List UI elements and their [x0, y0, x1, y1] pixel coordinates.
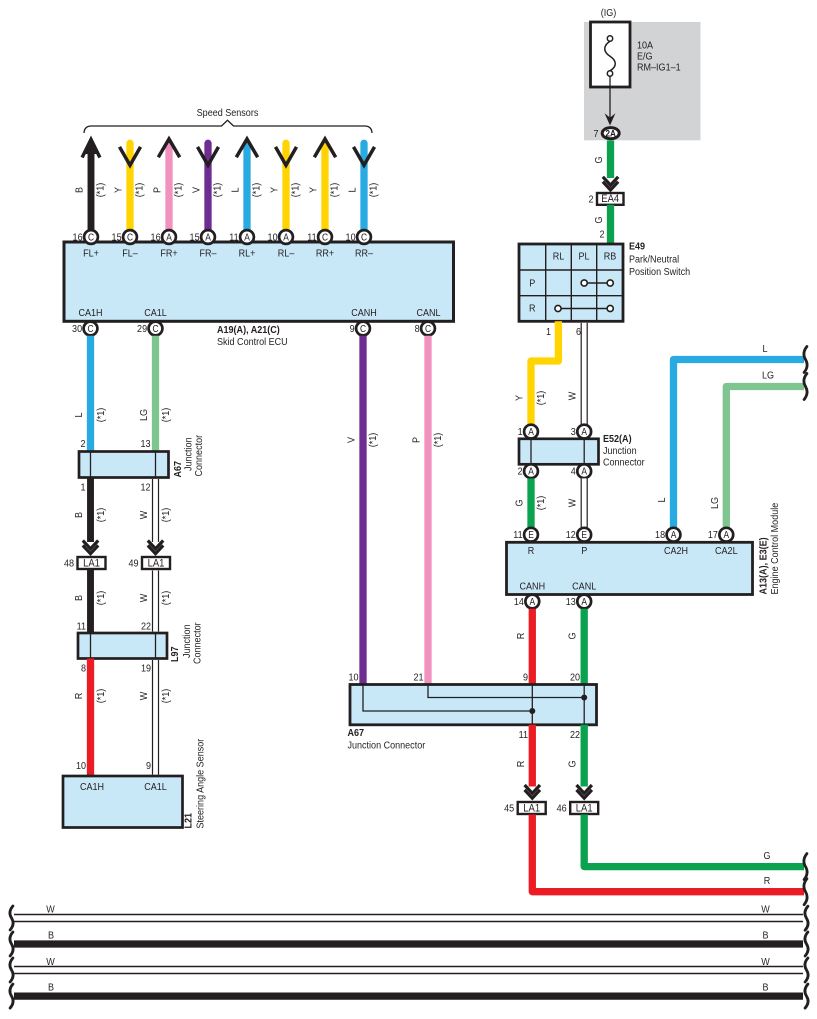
break symbols wire W1 [10, 906, 13, 930]
wire G from 2A to EA4 [607, 141, 614, 179]
pin 29 C of ECU (CA1L) [149, 322, 163, 336]
svg-text:G: G [593, 156, 605, 163]
svg-text:V: V [191, 187, 203, 193]
svg-text:Speed Sensors: Speed Sensors [197, 107, 259, 119]
svg-text:12: 12 [140, 482, 150, 494]
junction connector L97 [78, 633, 167, 659]
svg-text:18: 18 [655, 530, 666, 542]
svg-text:Junction: Junction [603, 445, 637, 457]
svg-text:L: L [230, 187, 242, 193]
R-row contact RL-RB [558, 308, 610, 310]
junction connector A67 (left) [79, 452, 169, 478]
svg-text:Y: Y [113, 187, 125, 193]
svg-text:(*1): (*1) [95, 591, 107, 606]
svg-text:Connector: Connector [193, 434, 205, 476]
wire P from ECU CANL to A67 [424, 336, 431, 685]
break symbol on wire R [804, 879, 807, 905]
wire L into ECM CA2H [674, 360, 805, 528]
svg-text:LA1: LA1 [576, 803, 593, 815]
svg-text:11: 11 [229, 232, 238, 244]
wire R from A67 to LA1-45 [529, 725, 536, 787]
svg-text:46: 46 [557, 803, 568, 815]
chevron arrow into LA1-45 [525, 785, 540, 793]
chevron arrow into LA1-46 [577, 785, 592, 793]
pin 2 A of E52 [524, 464, 538, 478]
svg-text:A: A [205, 232, 211, 243]
svg-text:W: W [46, 956, 55, 968]
svg-text:1: 1 [80, 482, 85, 494]
svg-text:Park/Neutral: Park/Neutral [629, 254, 679, 266]
wire G from A67 to LA1-46 [581, 725, 588, 787]
svg-text:4: 4 [571, 466, 577, 478]
pin 16 A of ECU (FR+) [162, 230, 176, 244]
svg-text:RM–IG1–1: RM–IG1–1 [637, 62, 681, 74]
svg-text:19: 19 [141, 663, 151, 675]
svg-text:C: C [360, 323, 366, 334]
wire W from E52 to ECM pin12 [581, 478, 588, 527]
svg-text:9: 9 [523, 672, 528, 684]
wire G from LA1-46 to right edge [584, 815, 804, 867]
pin 10 A of ECU (RL-) [279, 230, 293, 244]
svg-text:A: A [166, 232, 172, 243]
svg-text:A13(A), E3(E): A13(A), E3(E) [758, 537, 770, 594]
splice EA4 [597, 193, 624, 205]
svg-text:(*1): (*1) [290, 183, 302, 198]
svg-text:(*1): (*1) [535, 496, 547, 511]
svg-text:(*1): (*1) [95, 183, 107, 198]
svg-text:EA4: EA4 [601, 194, 619, 206]
svg-text:W: W [761, 904, 770, 916]
svg-text:Position Switch: Position Switch [629, 266, 690, 278]
svg-text:A: A [581, 466, 587, 477]
svg-text:(*1): (*1) [160, 689, 172, 704]
wire R from ECM pin14 to A67 [529, 609, 536, 685]
wire from fuse to connector 2A [609, 76, 611, 119]
svg-text:E: E [528, 530, 534, 541]
svg-text:R: R [73, 693, 85, 700]
pin 8 C of ECU (CANL) [421, 322, 435, 336]
pin 17 A of ECM [719, 528, 733, 542]
svg-text:L: L [347, 187, 359, 193]
svg-text:G: G [593, 216, 605, 223]
svg-text:CA2L: CA2L [715, 545, 738, 557]
svg-text:9: 9 [146, 760, 151, 772]
svg-text:12: 12 [566, 530, 576, 542]
chevron arrow into LA1-48 [83, 541, 98, 549]
wire B from LA1-48 to L97 [87, 569, 94, 633]
svg-text:8: 8 [415, 323, 421, 335]
svg-text:R: R [764, 875, 771, 887]
svg-text:FR–: FR– [199, 248, 217, 260]
svg-text:7: 7 [593, 129, 598, 141]
bus wire W (shield) 2 [14, 966, 803, 968]
svg-text:G: G [567, 632, 579, 639]
svg-text:Connector: Connector [603, 457, 645, 469]
wire W from L97 to L21 [152, 660, 159, 775]
svg-text:A67: A67 [348, 727, 365, 739]
svg-text:B: B [73, 595, 85, 601]
splice point 48 LA1 [78, 557, 106, 569]
svg-text:CANH: CANH [351, 307, 377, 319]
pin 11 E of ECM [524, 528, 538, 542]
Steering Angle Sensor box L21 [63, 776, 183, 828]
svg-text:G: G [514, 499, 526, 506]
svg-text:49: 49 [128, 558, 138, 570]
svg-text:CANL: CANL [416, 307, 441, 319]
svg-text:13: 13 [566, 596, 577, 608]
break symbols wire B2 [10, 984, 13, 1008]
splice point 49 LA1 [142, 557, 170, 569]
pin 9 C of ECU (CANH) [356, 322, 370, 336]
svg-text:13: 13 [140, 438, 151, 450]
svg-text:(*1): (*1) [329, 183, 341, 198]
wire W from A67 to splice LA1-49 [152, 479, 159, 542]
splice point 45 LA1 [518, 802, 546, 814]
svg-text:E: E [581, 530, 587, 541]
svg-text:B: B [74, 187, 86, 193]
svg-text:L21: L21 [183, 812, 195, 828]
svg-text:8: 8 [81, 663, 87, 675]
svg-text:W: W [138, 691, 150, 700]
svg-text:1: 1 [546, 326, 551, 338]
wire FL- sensor (Y) with down-arrow [126, 143, 133, 230]
pin 18 A of ECM [667, 528, 681, 542]
wire G from ECM pin13 to A67 [581, 609, 588, 685]
svg-text:LG: LG [138, 409, 150, 421]
svg-text:B: B [762, 982, 768, 994]
brace over speed sensor wires [84, 120, 372, 133]
svg-text:11: 11 [77, 621, 86, 633]
wire FL+ sensor (black, B) with filled up-arrow [88, 150, 95, 230]
svg-text:RL+: RL+ [239, 248, 256, 260]
svg-text:P: P [411, 437, 423, 443]
svg-text:C: C [152, 323, 158, 334]
svg-text:(*1): (*1) [432, 433, 444, 448]
svg-text:(*1): (*1) [173, 183, 185, 198]
svg-text:B: B [48, 982, 54, 994]
svg-text:(*1): (*1) [160, 408, 172, 423]
svg-text:CANH: CANH [520, 581, 546, 593]
junction dot on CANH bus [529, 708, 535, 714]
svg-text:11: 11 [519, 729, 528, 741]
svg-text:RL: RL [553, 251, 565, 263]
svg-text:LA1: LA1 [148, 558, 165, 570]
svg-text:G: G [567, 760, 579, 767]
svg-text:22: 22 [570, 729, 580, 741]
svg-text:22: 22 [141, 621, 151, 633]
junction connector A67 (lower) [350, 685, 597, 725]
svg-text:(IG): (IG) [601, 7, 617, 19]
wire LG from ECU pin 29 to A67 [152, 336, 159, 452]
svg-text:2: 2 [518, 466, 523, 478]
svg-text:C: C [88, 232, 94, 243]
splice point 46 LA1 [570, 802, 598, 814]
svg-text:(*1): (*1) [160, 508, 172, 523]
svg-text:W: W [46, 904, 55, 916]
svg-text:29: 29 [137, 323, 147, 335]
svg-text:LA1: LA1 [523, 803, 540, 815]
wire W from E49 pin6 to E52 pin3 [581, 323, 588, 425]
svg-text:1: 1 [518, 426, 523, 438]
svg-text:10: 10 [268, 232, 279, 244]
svg-text:(*1): (*1) [367, 433, 379, 448]
svg-text:Skid Control ECU: Skid Control ECU [217, 336, 288, 348]
break symbol on wire G [804, 854, 807, 880]
svg-text:(*1): (*1) [95, 689, 107, 704]
svg-text:L: L [656, 497, 668, 503]
svg-text:Y: Y [269, 187, 281, 193]
svg-text:14: 14 [514, 596, 525, 608]
P-row contact PL-RB [584, 282, 610, 284]
svg-text:10: 10 [346, 232, 357, 244]
svg-text:FL–: FL– [122, 248, 138, 260]
svg-text:CA2H: CA2H [664, 545, 688, 557]
svg-text:C: C [322, 232, 328, 243]
svg-text:LG: LG [709, 497, 721, 509]
svg-text:10: 10 [76, 760, 87, 772]
svg-text:(*1): (*1) [95, 508, 107, 523]
relay block gray box [584, 22, 701, 140]
svg-text:A: A [723, 530, 729, 541]
wire R from L97 to L21 [87, 659, 94, 777]
svg-text:A: A [581, 596, 587, 607]
break symbol on wire L [804, 347, 807, 373]
svg-text:11: 11 [513, 530, 522, 542]
bus wire B (shield) 2 [14, 992, 803, 999]
Park/Neutral Position Switch E49 box [519, 244, 623, 321]
junction connector E52(A) [519, 439, 599, 465]
svg-text:A: A [528, 427, 534, 438]
wire G from EA4 to E49 [607, 205, 614, 244]
svg-text:LG: LG [762, 370, 774, 382]
wire R from LA1-45 to right edge [532, 815, 804, 892]
svg-text:A: A [529, 596, 535, 607]
pin 14 A of ECM [525, 595, 539, 609]
svg-text:RL–: RL– [278, 248, 295, 260]
svg-text:Engine Control Module: Engine Control Module [769, 503, 781, 595]
svg-text:PL: PL [578, 251, 590, 263]
wire FR- sensor (V) with down-arrow [204, 143, 211, 230]
svg-text:C: C [361, 232, 367, 243]
svg-text:V: V [346, 437, 358, 443]
Skid Control ECU box A19(A)/A21(C) [64, 242, 454, 321]
pin 11 C of ECU (RR+) [318, 230, 332, 244]
pin 13 A of ECM [577, 595, 591, 609]
svg-text:(*1): (*1) [134, 183, 146, 198]
svg-text:15: 15 [112, 232, 123, 244]
svg-text:(*1): (*1) [251, 183, 263, 198]
bus wire W (shield) 1 [14, 914, 803, 916]
internal link pin21 to CANL bus [428, 685, 584, 698]
svg-text:RR–: RR– [355, 248, 374, 260]
svg-text:Connector: Connector [192, 622, 204, 664]
svg-text:CA1L: CA1L [144, 307, 167, 319]
svg-text:B: B [73, 512, 85, 518]
internal link pin10 to CANH bus [363, 685, 532, 712]
pin 4 A of E52 [577, 464, 591, 478]
wire RR- sensor (L) with down-arrow [360, 143, 367, 230]
svg-text:Steering Angle Sensor: Steering Angle Sensor [195, 738, 207, 828]
wire B from A67 to splice LA1-48 [87, 478, 94, 543]
svg-text:45: 45 [504, 803, 515, 815]
wire L from ECU pin 30 to A67 [87, 336, 94, 452]
svg-text:E49: E49 [629, 241, 646, 253]
svg-text:2: 2 [80, 438, 85, 450]
pin 16 C of ECU (FL+) [84, 230, 98, 244]
svg-text:G: G [763, 850, 770, 862]
wire FR+ sensor (P) with up-arrow [165, 142, 172, 230]
svg-text:A: A [581, 427, 587, 438]
svg-text:16: 16 [151, 232, 162, 244]
svg-text:20: 20 [570, 672, 581, 684]
svg-text:3: 3 [571, 426, 577, 438]
svg-text:L97: L97 [169, 646, 181, 662]
wire RL+ sensor (L) with up-arrow [243, 142, 250, 230]
connector 7 2A [602, 128, 619, 139]
wire LG into ECM CA2L [726, 387, 804, 528]
svg-text:P: P [529, 278, 535, 290]
svg-text:10: 10 [348, 672, 359, 684]
svg-text:(*1): (*1) [535, 391, 547, 406]
svg-text:W: W [567, 391, 579, 400]
svg-text:Junction Connector: Junction Connector [348, 740, 426, 752]
junction dot on CANL bus [581, 695, 587, 701]
svg-text:17: 17 [708, 530, 718, 542]
wire Y from E49 pin1 to E52 pin1 [531, 321, 558, 424]
chevron arrow into LA1-49 [148, 541, 163, 549]
svg-text:R: R [515, 633, 527, 640]
svg-text:CA1H: CA1H [78, 307, 102, 319]
svg-text:A: A [244, 232, 250, 243]
wire W from LA1-49 to L97 [152, 571, 159, 632]
wire RR+ sensor (Y) with up-arrow [321, 142, 328, 230]
svg-text:9: 9 [350, 323, 355, 335]
pin 12 E of ECM [577, 528, 591, 542]
svg-text:2: 2 [588, 194, 593, 206]
pin 10 C of ECU (RR-) [357, 230, 371, 244]
svg-text:RB: RB [604, 251, 617, 263]
svg-text:CANL: CANL [572, 581, 597, 593]
svg-text:P: P [581, 545, 587, 557]
pin 1 A of E52 [524, 425, 538, 439]
svg-text:(*1): (*1) [95, 408, 107, 423]
wire RL- sensor (Y) with down-arrow [282, 143, 289, 230]
Engine Control Module box A13(A)/E3(E) [507, 542, 753, 594]
pin 11 A of ECU (RL+) [240, 230, 254, 244]
svg-text:L: L [73, 412, 85, 418]
wire G from E52 to ECM pin11 [527, 478, 534, 527]
svg-text:R: R [515, 761, 527, 768]
svg-text:FL+: FL+ [83, 248, 99, 260]
svg-text:E52(A): E52(A) [603, 433, 632, 445]
svg-text:16: 16 [73, 232, 84, 244]
svg-text:W: W [138, 510, 150, 519]
pin 3 A of E52 [577, 425, 591, 439]
pin 15 A of ECU (FR-) [201, 230, 215, 244]
svg-text:C: C [127, 232, 133, 243]
svg-text:21: 21 [413, 672, 423, 684]
svg-text:L: L [762, 343, 768, 355]
svg-text:A: A [283, 232, 289, 243]
svg-text:B: B [762, 930, 768, 942]
svg-text:FR+: FR+ [160, 248, 178, 260]
svg-text:Y: Y [308, 187, 320, 193]
break symbol on wire LG [804, 374, 807, 400]
break symbols wire W2 [10, 958, 13, 982]
svg-text:B: B [48, 930, 54, 942]
svg-text:2: 2 [599, 229, 604, 241]
svg-text:15: 15 [190, 232, 201, 244]
svg-text:CA1H: CA1H [80, 781, 104, 793]
svg-text:30: 30 [72, 323, 83, 335]
svg-text:11: 11 [307, 232, 316, 244]
svg-text:P: P [152, 187, 164, 193]
chevron arrow into EA4 [603, 177, 618, 185]
svg-text:(*1): (*1) [212, 183, 224, 198]
wire V from ECU CANH to A67 [359, 336, 366, 685]
fuse 10A E/G RM-IG1-1 [591, 22, 631, 87]
bus wire B (shield) 1 [14, 940, 803, 947]
svg-text:LA1: LA1 [83, 558, 100, 570]
svg-text:CA1L: CA1L [144, 781, 167, 793]
svg-text:W: W [761, 956, 770, 968]
pin 15 C of ECU (FL-) [123, 230, 137, 244]
svg-text:W: W [138, 593, 150, 602]
svg-text:C: C [425, 323, 431, 334]
svg-text:2A: 2A [605, 128, 616, 139]
pin 30 C of ECU (CA1H) [84, 322, 98, 336]
svg-text:C: C [87, 323, 93, 334]
svg-text:A19(A), A21(C): A19(A), A21(C) [217, 324, 280, 336]
svg-text:(*1): (*1) [160, 591, 172, 606]
svg-text:R: R [529, 303, 536, 315]
svg-text:A: A [671, 530, 677, 541]
svg-text:A: A [528, 466, 534, 477]
svg-text:R: R [528, 545, 535, 557]
svg-text:48: 48 [64, 558, 75, 570]
svg-text:RR+: RR+ [316, 248, 335, 260]
break symbols wire B1 [10, 932, 13, 956]
svg-text:(*1): (*1) [368, 183, 380, 198]
svg-text:Y: Y [514, 395, 526, 401]
svg-text:W: W [567, 498, 579, 507]
